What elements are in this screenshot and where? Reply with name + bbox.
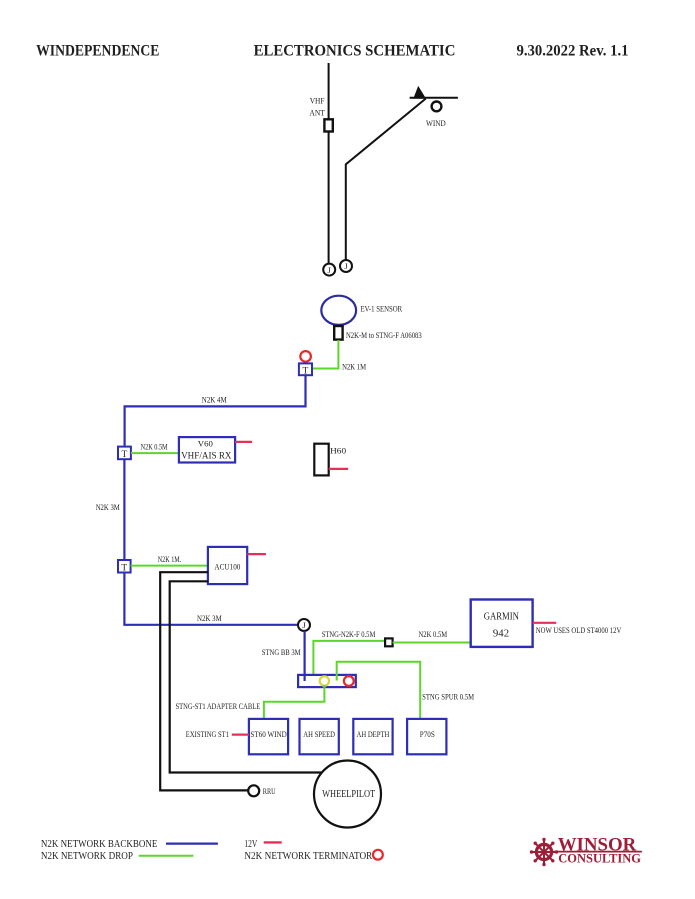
wire backbone T2 to T3 (blue) xyxy=(123,459,125,560)
svg-text:N2K 4M: N2K 4M xyxy=(202,396,227,405)
AH SPEED box xyxy=(300,719,339,754)
svg-text:STNG-N2K-F 0.5M: STNG-N2K-F 0.5M xyxy=(322,630,376,639)
wire drop T3 to ACU100 (green) xyxy=(131,565,209,567)
svg-text:NOW USES OLD ST4000 12V: NOW USES OLD ST4000 12V xyxy=(536,626,622,635)
wire VHF antenna cable xyxy=(328,63,330,264)
legend N2K NETWORK DROP xyxy=(41,851,194,862)
svg-text:T: T xyxy=(302,366,308,376)
wire drop EV-1 to T1 (green) xyxy=(312,340,338,369)
hub spare port (yellow) xyxy=(320,676,329,685)
svg-text:VHF/AIS RX: VHF/AIS RX xyxy=(181,450,232,460)
tee connector T2 xyxy=(118,447,131,461)
wire wheelpilot cable (black) xyxy=(170,581,322,772)
svg-text:H60: H60 xyxy=(330,446,346,456)
svg-text:AH DEPTH: AH DEPTH xyxy=(357,730,390,739)
STNG hub xyxy=(298,675,356,687)
V60 box xyxy=(179,437,235,462)
wire wind masthead boom xyxy=(410,97,458,99)
svg-text:942: 942 xyxy=(493,628,509,639)
AH DEPTH box xyxy=(353,719,392,754)
wind cups circle xyxy=(432,102,442,112)
svg-text:WINDEPENDENCE: WINDEPENDENCE xyxy=(36,42,159,59)
wire drop T2 to V60 (green) xyxy=(131,452,179,454)
adapter connector square xyxy=(385,638,393,646)
svg-text:N2K NETWORK DROP: N2K NETWORK DROP xyxy=(41,851,133,862)
svg-text:N2K 3M: N2K 3M xyxy=(96,503,120,512)
ST60 WIND box xyxy=(249,719,288,754)
svg-text:9.30.2022 Rev. 1.1: 9.30.2022 Rev. 1.1 xyxy=(517,42,629,59)
svg-text:N2K-M to STNG-F A06083: N2K-M to STNG-F A06083 xyxy=(346,331,422,340)
svg-text:RRU: RRU xyxy=(263,787,276,796)
svg-text:N2K NETWORK TERMINATOR: N2K NETWORK TERMINATOR xyxy=(244,851,372,862)
svg-text:EV-1 SENSOR: EV-1 SENSOR xyxy=(361,305,403,314)
EV-1 sensor xyxy=(321,296,356,325)
wire drop hub to adapter (green) xyxy=(313,641,385,680)
wire backbone J3 to hub (blue) xyxy=(304,631,306,680)
H60 box xyxy=(314,444,346,476)
EV-1 connector N2K-M xyxy=(334,326,342,340)
wire wind transducer cable xyxy=(346,99,426,260)
svg-text:N2K NETWORK BACKBONE: N2K NETWORK BACKBONE xyxy=(41,839,157,850)
logo rule xyxy=(551,851,642,853)
legend N2K NETWORK TERMINATOR xyxy=(244,850,382,862)
WHEELPILOT circle xyxy=(314,761,381,828)
antenna connector xyxy=(324,119,332,131)
svg-text:N2K 1M.: N2K 1M. xyxy=(158,555,182,564)
ACU100 box xyxy=(208,547,247,584)
V60 12V wire xyxy=(235,441,252,443)
svg-text:AH SPEED: AH SPEED xyxy=(303,730,335,739)
svg-text:VHF: VHF xyxy=(310,97,325,106)
wire rudder reference cable (black) xyxy=(160,572,248,790)
existing ST1 12V wire xyxy=(232,733,249,735)
svg-text:GARMIN: GARMIN xyxy=(484,612,519,623)
hub terminator (red) xyxy=(344,676,354,686)
svg-text:STNG SPUR 0.5M: STNG SPUR 0.5M xyxy=(422,692,474,701)
wire backbone T1 to T2 (blue) xyxy=(125,375,306,446)
svg-text:N2K 3M: N2K 3M xyxy=(197,614,222,623)
svg-text:N2K 0.5M: N2K 0.5M xyxy=(141,442,168,451)
tee connector T1 xyxy=(299,363,312,376)
junction J2 wind xyxy=(340,260,352,272)
GARMIN 12V wire xyxy=(533,622,557,624)
svg-text:EXISTING ST1: EXISTING ST1 xyxy=(186,730,229,739)
P70S box xyxy=(407,719,446,754)
hub backbone stub xyxy=(304,675,306,681)
svg-text:ST60 WIND: ST60 WIND xyxy=(250,730,287,739)
svg-text:WIND: WIND xyxy=(426,119,446,128)
junction J1 VHF xyxy=(323,264,335,276)
svg-text:T: T xyxy=(121,450,127,460)
legend N2K NETWORK BACKBONE xyxy=(41,839,218,850)
legend 12V xyxy=(244,839,281,850)
svg-text:N2K 1M: N2K 1M xyxy=(342,362,366,371)
wire spur hub to P70S (green) xyxy=(337,662,421,719)
svg-text:T: T xyxy=(121,563,127,573)
svg-text:STNG-ST1 ADAPTER CABLE: STNG-ST1 ADAPTER CABLE xyxy=(176,702,261,711)
H60 12V wire xyxy=(329,468,348,470)
junction J3 xyxy=(298,619,310,631)
ACU100 12V wire xyxy=(247,553,266,555)
svg-text:WHEELPILOT: WHEELPILOT xyxy=(322,789,375,800)
svg-text:ACU100: ACU100 xyxy=(214,562,240,572)
svg-text:N2K 0.5M: N2K 0.5M xyxy=(419,630,448,639)
wind vane triangle xyxy=(413,86,426,99)
GARMIN box xyxy=(471,600,533,647)
svg-text:ELECTRONICS SCHEMATIC: ELECTRONICS SCHEMATIC xyxy=(254,42,456,59)
svg-text:CONSULTING: CONSULTING xyxy=(558,851,641,865)
RRU junction circle xyxy=(248,785,276,796)
svg-text:STNG BB 3M: STNG BB 3M xyxy=(262,648,301,657)
logo ship wheel xyxy=(530,838,558,866)
wire backbone T3 to J3 (blue) xyxy=(124,573,298,625)
svg-text:ANT: ANT xyxy=(309,109,325,118)
terminator (red) above T1 xyxy=(300,351,311,362)
wire STNG-ST1 adapter (green) xyxy=(264,685,325,719)
wire adapter to Garmin (green) xyxy=(393,642,471,644)
svg-text:12V: 12V xyxy=(244,839,258,850)
svg-text:P70S: P70S xyxy=(420,730,435,739)
label VHF ANT xyxy=(309,97,325,118)
svg-text:V60: V60 xyxy=(198,439,213,449)
tee connector T3 xyxy=(118,560,131,573)
